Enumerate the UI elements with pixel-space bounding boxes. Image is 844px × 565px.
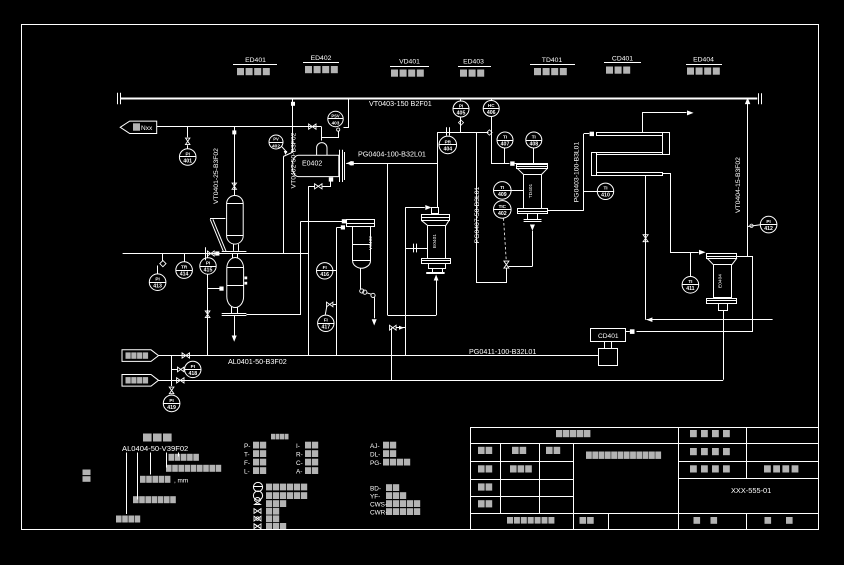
coil vent line with arrow bbox=[643, 113, 687, 133]
svg-text:V0402: V0402 bbox=[368, 236, 374, 250]
svg-text:T-: T- bbox=[244, 451, 250, 458]
svg-text:407: 407 bbox=[501, 141, 510, 147]
bubble TI409 at TD401 side bbox=[494, 182, 512, 200]
svg-text:FI: FI bbox=[324, 318, 328, 323]
bubble PI405 hung from header bbox=[460, 98, 462, 101]
svg-text:419: 419 bbox=[167, 405, 176, 411]
E0402 dome bbox=[317, 143, 327, 156]
svg-text:CWS-: CWS- bbox=[370, 501, 387, 508]
svg-text:AL0401-50-B3F02: AL0401-50-B3F02 bbox=[228, 357, 287, 366]
svg-text:VT0401-25-B3F02: VT0401-25-B3F02 bbox=[213, 148, 220, 204]
title row check bbox=[478, 483, 485, 490]
legend symbol gate valve bbox=[254, 509, 261, 514]
svg-text:FI: FI bbox=[323, 265, 327, 270]
title block outer bbox=[471, 428, 819, 530]
svg-text:VT0402-50-B3F02: VT0402-50-B3F02 bbox=[291, 132, 298, 188]
svg-text:TR: TR bbox=[181, 265, 188, 270]
legend note pressure code bbox=[166, 465, 172, 472]
svg-text:TI: TI bbox=[603, 186, 607, 191]
svg-text:PG0403-100-B3L01: PG0403-100-B3L01 bbox=[574, 142, 581, 203]
svg-text:Nxx: Nxx bbox=[141, 125, 153, 132]
valve on flag line near E0402 bbox=[309, 124, 316, 129]
exchanger E0402 body bbox=[292, 155, 339, 176]
svg-text:PG0411-100-B32L01: PG0411-100-B32L01 bbox=[469, 347, 536, 356]
svg-text:PI: PI bbox=[186, 151, 190, 156]
vertical VT0402 from header down bbox=[292, 98, 294, 152]
valve on y355 bbox=[182, 353, 189, 358]
riser x301 from vessel top line bbox=[300, 221, 302, 314]
E0404 bottom striped flange bbox=[707, 299, 737, 304]
coil tube 1 bbox=[597, 133, 663, 136]
CD401 shaft bbox=[604, 342, 606, 349]
svg-text:413: 413 bbox=[153, 284, 162, 290]
svg-text:403: 403 bbox=[332, 120, 340, 125]
up arrow into E0401 bottom bbox=[434, 275, 439, 281]
svg-text:HC: HC bbox=[488, 103, 495, 108]
HC drop joins overhead line end, down to TD401 feed bbox=[487, 130, 492, 135]
svg-text:VD401: VD401 bbox=[399, 59, 420, 66]
svg-text:412: 412 bbox=[764, 226, 773, 232]
V2 flange line to drain riser bbox=[246, 314, 301, 316]
instrument stub with diamond, bubble PI413 bbox=[162, 254, 164, 262]
svg-text:C-: C- bbox=[296, 460, 303, 467]
control valve on TD401 bottoms bbox=[504, 261, 509, 268]
riser x387 from E0402 outlet line bbox=[387, 163, 389, 315]
coil outlet 2 down with valve bbox=[645, 175, 647, 320]
feed flag 1 bbox=[122, 350, 159, 362]
svg-text:PG0407-50-B3L01: PG0407-50-B3L01 bbox=[474, 186, 481, 243]
svg-text:409: 409 bbox=[498, 192, 507, 198]
main header line VT0403-150 B2F01 bbox=[120, 98, 757, 100]
bottoms loop to PG0407 riser bbox=[509, 266, 533, 268]
bubble TI410 on coil riser bbox=[584, 191, 598, 193]
svg-text:ED402: ED402 bbox=[311, 55, 332, 62]
svg-text:414: 414 bbox=[180, 272, 189, 278]
svg-text:ED403: ED403 bbox=[463, 59, 484, 66]
bubble TI408 above TD401 bbox=[526, 132, 542, 148]
title drawing name bbox=[586, 452, 592, 459]
E0404 body bbox=[714, 265, 732, 298]
bubble TI411 bbox=[690, 252, 692, 276]
branch down to VD401 bbox=[234, 127, 236, 196]
svg-text:TI: TI bbox=[688, 279, 692, 284]
level tap into V2 bbox=[208, 288, 220, 290]
CD401 driver box bbox=[599, 349, 618, 366]
cross line y221 into filter vessel bbox=[301, 221, 347, 223]
relief discharge to header bbox=[344, 99, 349, 128]
svg-text:411: 411 bbox=[686, 286, 694, 292]
coil left U-bend bbox=[592, 153, 597, 176]
svg-text:CD401: CD401 bbox=[598, 333, 619, 340]
vessel VD401 upper capsule bbox=[227, 196, 244, 245]
svg-text:PI: PI bbox=[459, 103, 463, 108]
VT0404 riser from header bbox=[747, 104, 749, 257]
bubble HC406 bbox=[491, 98, 493, 101]
coil tube 2 bbox=[597, 153, 663, 155]
svg-text:405: 405 bbox=[457, 110, 466, 116]
bubble PR404 under orifice bbox=[439, 136, 457, 154]
svg-text:PI: PI bbox=[155, 277, 159, 282]
bottom feed line y315 bbox=[388, 315, 437, 317]
svg-text:ED404: ED404 bbox=[693, 57, 714, 64]
filter vessel top striped cap bbox=[347, 220, 375, 227]
svg-text:TD401: TD401 bbox=[528, 183, 534, 198]
relief valve bubble PSV403 bbox=[328, 111, 343, 126]
legend symbol local instrument bbox=[253, 491, 262, 500]
branch valve + bubble PI401 below flag line bbox=[187, 127, 189, 138]
title block vertical lines bbox=[500, 443, 502, 513]
instrument riser x336 bbox=[336, 227, 338, 355]
svg-text:PR: PR bbox=[445, 139, 452, 144]
legend note project number bbox=[133, 496, 139, 503]
bubble PI412 tap bbox=[748, 225, 761, 227]
svg-text:TI: TI bbox=[500, 185, 504, 190]
bubble TI414 on stub bbox=[184, 254, 186, 262]
svg-text:TIC: TIC bbox=[499, 204, 507, 209]
orifice line into E0401 left bbox=[405, 248, 427, 250]
bubble PI419 below bbox=[171, 380, 173, 386]
vessel V2 lower capsule bbox=[232, 254, 234, 259]
PSV403 relief loop bbox=[322, 132, 339, 138]
process line y252 bbox=[123, 253, 309, 255]
title row headers bbox=[478, 447, 485, 454]
svg-text:PG-: PG- bbox=[370, 460, 381, 467]
svg-text:ED401: ED401 bbox=[245, 57, 266, 64]
long line y380 bbox=[159, 380, 724, 382]
coil outlet right to E0404 bbox=[663, 173, 671, 175]
svg-text:CWR-: CWR- bbox=[370, 509, 387, 516]
V2 bottom neck flange and drain arrow bbox=[231, 307, 233, 313]
svg-text:402: 402 bbox=[272, 143, 280, 149]
orifice plate on y131 bbox=[446, 127, 448, 135]
title sheet number bbox=[694, 517, 701, 524]
flag line to right bbox=[157, 126, 322, 128]
TD401 legs and base bbox=[527, 214, 529, 220]
TD401 top striped cap bbox=[517, 164, 548, 169]
arrow up at header end bbox=[745, 98, 751, 105]
svg-text:E0402: E0402 bbox=[302, 160, 322, 167]
svg-text:408: 408 bbox=[529, 141, 538, 147]
overhead line y131 bbox=[437, 132, 488, 134]
vertical drain x207 to flare header bbox=[207, 274, 209, 355]
gate valve w/ blind on line y252 bbox=[205, 247, 207, 260]
svg-text:I-: I- bbox=[296, 443, 300, 450]
svg-text:PI: PI bbox=[191, 364, 195, 369]
svg-text:TI: TI bbox=[503, 134, 507, 139]
E0401 top box bbox=[432, 208, 439, 214]
legend note pipe diameter bbox=[140, 476, 146, 483]
svg-text:BD-: BD- bbox=[370, 485, 381, 492]
inclined chute into VD401 bbox=[210, 218, 225, 220]
riser x405 to bottom header bbox=[405, 207, 407, 355]
legend symbol ball valve bbox=[254, 516, 261, 521]
svg-text:DL-: DL- bbox=[370, 451, 380, 458]
small valve on x207 bbox=[205, 311, 210, 318]
E0404 top-right loop to CD401 bbox=[637, 257, 753, 332]
legend code title bbox=[271, 434, 275, 440]
E0402 outlet line to right bbox=[346, 163, 437, 165]
coil inlet connector bbox=[584, 133, 590, 135]
TD401 bottom striped flange bbox=[518, 209, 548, 214]
svg-text:F-: F- bbox=[244, 460, 250, 467]
relief bubble PV402 bbox=[269, 135, 283, 149]
bubble TI407 above TD401 bbox=[497, 132, 513, 148]
svg-text:415: 415 bbox=[204, 267, 213, 273]
svg-text:XXX-555-01: XXX-555-01 bbox=[731, 486, 771, 495]
svg-text:E0404: E0404 bbox=[718, 274, 724, 288]
filter vessel body bbox=[353, 227, 371, 261]
svg-text:PI: PI bbox=[169, 398, 173, 403]
TD401 body bbox=[524, 175, 542, 209]
V2 level gauge taps bbox=[244, 277, 247, 280]
E0401 bottom striped flange bbox=[422, 259, 451, 264]
vertical from y131 line down to E0401 bbox=[437, 132, 439, 207]
cooling water line y320 bbox=[646, 317, 652, 322]
svg-text:416: 416 bbox=[320, 272, 329, 278]
svg-text:PSV: PSV bbox=[331, 113, 339, 118]
title row design bbox=[478, 465, 485, 472]
svg-text:E0401: E0401 bbox=[432, 234, 438, 248]
title scale label bbox=[580, 517, 587, 524]
E0401 body bbox=[428, 226, 446, 259]
svg-text:406: 406 bbox=[487, 110, 496, 116]
E0404 top striped cap bbox=[707, 254, 737, 259]
svg-text:VT0403-150 B2F01: VT0403-150 B2F01 bbox=[369, 99, 432, 108]
svg-text:402: 402 bbox=[498, 211, 507, 217]
svg-text:404: 404 bbox=[443, 146, 452, 152]
svg-text:TD401: TD401 bbox=[542, 57, 563, 64]
arrow into E0402 right side bbox=[346, 161, 352, 166]
svg-text:YF-: YF- bbox=[370, 493, 380, 500]
legend note material code bbox=[116, 516, 122, 523]
header end terminator bars bbox=[758, 93, 760, 104]
legend note material+grade bbox=[169, 454, 175, 461]
svg-text:AJ-: AJ- bbox=[370, 443, 380, 450]
TD401 side outlet to coil riser bbox=[548, 210, 584, 212]
svg-text:VT0404-15-B3F02: VT0404-15-B3F02 bbox=[735, 157, 742, 213]
svg-text:L-: L- bbox=[244, 468, 250, 475]
svg-text:410: 410 bbox=[601, 193, 610, 199]
feed flag CWxx (left-pointing) bbox=[120, 121, 157, 133]
feed arrow into E0401 top box bbox=[405, 207, 424, 209]
svg-text:418: 418 bbox=[188, 371, 197, 377]
compressor CD401 box bbox=[591, 329, 626, 342]
drain link w/ valve to flare bbox=[396, 327, 405, 329]
svg-text:, mm: , mm bbox=[174, 478, 188, 485]
feed flag 2 bbox=[122, 375, 159, 387]
svg-text:TI: TI bbox=[532, 134, 536, 139]
svg-text:P-: P- bbox=[244, 443, 250, 450]
TD401 bottoms arrow down bbox=[530, 225, 535, 231]
title row approve bbox=[478, 500, 485, 507]
E0402 right flange bars bbox=[339, 150, 341, 182]
feed connector into TD401 bbox=[510, 161, 514, 165]
legend pipe-number title bbox=[143, 434, 152, 442]
line into E0402 dome bbox=[321, 127, 323, 141]
cross connect x171 bbox=[171, 356, 173, 381]
bubble PI418 bbox=[178, 367, 184, 372]
legend leader lines bbox=[126, 453, 128, 515]
filter drain with flanged joint bbox=[360, 268, 362, 289]
title block horizontal lines bbox=[471, 443, 679, 445]
drain riser x308 down to flare line bbox=[308, 186, 310, 355]
E0404 legs bbox=[719, 304, 728, 311]
legend symbol panel instrument bbox=[253, 482, 262, 491]
bubble FI416 on riser bbox=[333, 270, 337, 272]
svg-text:PI: PI bbox=[766, 219, 770, 224]
E0401 top striped cap bbox=[422, 215, 450, 221]
svg-text:417: 417 bbox=[321, 325, 330, 331]
svg-text:R-: R- bbox=[296, 451, 303, 458]
valve on y380 bbox=[177, 378, 184, 383]
svg-text:PI: PI bbox=[206, 260, 210, 265]
legend symbol control valve bbox=[255, 498, 261, 505]
E0401 sub flange bbox=[429, 264, 446, 269]
bubble PI415 below gate valve bbox=[207, 254, 209, 258]
svg-text:A-: A- bbox=[296, 468, 302, 475]
svg-text:401: 401 bbox=[183, 158, 192, 164]
signal line to control valve bbox=[504, 218, 507, 260]
E0401 legs and base plates bbox=[432, 268, 434, 272]
title sheets total bbox=[765, 517, 772, 524]
svg-text:PV: PV bbox=[273, 136, 279, 141]
coil right U-bend bbox=[663, 133, 670, 155]
E0404 bottoms line down to flare line bbox=[723, 311, 725, 380]
valve link and bubble FI417 bbox=[333, 304, 336, 306]
legend symbol check valve bbox=[254, 524, 261, 529]
legend sheet mark bbox=[83, 470, 91, 476]
suction line y355 PG0411 bbox=[159, 355, 599, 357]
filter vessel cone bottom bbox=[353, 261, 371, 269]
VD401 bottom neck and flange bbox=[233, 244, 235, 251]
svg-text:PG0404-100-B32L01: PG0404-100-B32L01 bbox=[358, 149, 426, 158]
jog to recycle riser bbox=[283, 152, 293, 157]
title company name bbox=[556, 430, 562, 437]
svg-text:AL0404-50-V39F02: AL0404-50-V39F02 bbox=[122, 444, 188, 453]
bubble TIC402 bbox=[494, 201, 512, 219]
recycle riser x283 bbox=[283, 157, 285, 254]
E0402 bottom drain bbox=[329, 177, 333, 181]
coil tube 3 bbox=[597, 173, 663, 176]
title date bbox=[507, 517, 513, 524]
svg-text:CD401: CD401 bbox=[612, 56, 633, 63]
title project name label bbox=[690, 430, 697, 437]
header start double tick bbox=[117, 93, 119, 104]
